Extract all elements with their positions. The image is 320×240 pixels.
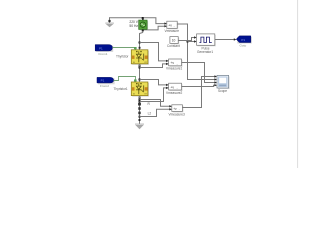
svg-text:Vmeasure3: Vmeasure3 <box>169 112 186 116</box>
arrow into Vmeasure plus <box>164 22 167 24</box>
svg-text:L2: L2 <box>148 111 152 115</box>
wire tap to Vmeasure1 minus <box>140 64 167 68</box>
wire tap to Vmeasure1 plus <box>140 43 167 61</box>
arrow into Vmeasure1 minus <box>166 63 169 65</box>
wire From2 to gate g2 (green) <box>114 77 136 83</box>
svg-text:Thyristor1: Thyristor1 <box>114 87 128 91</box>
arrow into Goto <box>234 38 237 40</box>
svg-text:P1: P1 <box>101 79 105 83</box>
arrow into Vmeasure2 minus <box>166 87 169 89</box>
From tag From2 <box>97 77 115 84</box>
wire branch into pulse generator in2 <box>188 41 195 43</box>
gate port g2 <box>134 79 137 81</box>
svg-text:10: 10 <box>172 39 176 43</box>
wire tap to Vmeasure3 plus <box>140 100 171 107</box>
arrow into scope in1 <box>214 75 217 77</box>
series RLC branch RL inductor element 2 <box>138 112 140 115</box>
wire Vmeasure3 out to scope in1 <box>182 77 215 108</box>
svg-text:Vmeasure2: Vmeasure2 <box>166 91 183 95</box>
svg-text:+v: +v <box>168 24 172 28</box>
voltage measurement Vmeasure1 block <box>169 59 183 67</box>
svg-text:+v: +v <box>170 85 174 89</box>
scope block <box>217 75 230 89</box>
label 220V 50Hz <box>129 20 138 28</box>
thyristor Thyristor1 <box>131 82 149 97</box>
node B junction dot <box>142 29 144 31</box>
voltage measurement U_src block <box>167 21 178 29</box>
svg-text:-: - <box>179 107 180 111</box>
svg-text:+v: +v <box>173 107 177 111</box>
Goto tag <box>236 36 252 44</box>
window border right edge <box>296 0 299 168</box>
arrow into scope in3 <box>214 81 217 83</box>
junction dot tap Vmeasure2 minus <box>139 101 141 103</box>
arrow into Vmeasure minus <box>164 25 167 27</box>
voltage measurement Vmeasure2 block <box>169 83 183 91</box>
junction dot above thyristor2 <box>139 79 141 81</box>
wire tap to Vmeasure2 plus <box>140 80 167 85</box>
series RLC branch RL resistor element <box>138 103 141 106</box>
arrow into Vmeasure3 minus <box>169 108 172 110</box>
arrow into Vmeasure1 plus <box>166 60 169 62</box>
port dot thyristor2 cathode <box>139 97 141 99</box>
ground G2 <box>135 124 144 129</box>
svg-text:From1: From1 <box>99 52 108 56</box>
junction dot node load top <box>139 99 141 101</box>
gate port g1 <box>134 47 137 49</box>
wire tap to Vmeasure3 minus <box>140 109 171 116</box>
AC voltage source V1 <box>139 18 148 31</box>
svg-text:-: - <box>177 86 178 90</box>
series RLC branch RL inductor element 1 <box>138 107 140 110</box>
From tag From1 <box>95 45 113 52</box>
svg-text:m: m <box>145 61 147 64</box>
wire Vmeasure1 out to scope in3 <box>182 63 216 83</box>
arrow into scope in2 <box>214 78 217 80</box>
ground G1 <box>105 20 114 27</box>
svg-text:P1: P1 <box>99 46 103 50</box>
wire Vmeasure2 out to scope in4 <box>182 85 216 86</box>
svg-text:P1: P1 <box>241 38 245 42</box>
wire node B to Vmeasure minus <box>143 26 166 30</box>
node T junction dot <box>142 17 144 19</box>
pulse generator block <box>197 34 216 46</box>
port dot thyristor1 cathode <box>139 65 141 67</box>
svg-text:50 Hz: 50 Hz <box>129 24 138 28</box>
junction dot pulse branch <box>187 41 189 43</box>
svg-text:Thyristor: Thyristor <box>116 55 129 59</box>
wire From1 to gate g1 (green) <box>112 48 135 51</box>
arrow into scope in4 <box>214 84 217 86</box>
svg-text:Scope: Scope <box>218 89 227 93</box>
thyristor Thyristor <box>131 50 149 65</box>
wire column thyristor1 to thyristor2 <box>139 64 141 83</box>
svg-text:+v: +v <box>170 61 174 65</box>
wire column thyristor2 to ground2 <box>139 96 141 125</box>
wire main column source to thyristor1 <box>140 30 143 51</box>
voltage measurement Vmeasure3 block <box>172 105 184 113</box>
svg-text:Goto: Goto <box>240 44 247 48</box>
svg-text:Constant: Constant <box>167 44 180 48</box>
wire ground1 stem <box>109 17 111 23</box>
wire tap to Vmeasure2 minus <box>140 88 167 102</box>
label Pulse Generator1 <box>197 46 213 54</box>
series RLC branch RL junction dot lower2 <box>139 119 141 121</box>
junction dot above thyristor1 <box>139 42 141 44</box>
svg-text:Generator1: Generator1 <box>197 50 213 54</box>
series RLC branch RL junction dot lower1 <box>139 116 141 118</box>
svg-text:From2: From2 <box>100 84 109 88</box>
arrow into pulse generator in2 <box>194 40 197 42</box>
wire ground1 to node T <box>110 18 166 24</box>
junction dot below thyristor1 <box>139 67 141 69</box>
svg-text:Vmeasure: Vmeasure <box>165 29 180 33</box>
port dot thyristor1 anode <box>139 47 141 49</box>
arrow into pulse generator in1 <box>194 36 197 38</box>
arrow into Vmeasure2 plus <box>166 84 169 86</box>
svg-text:m: m <box>145 92 147 95</box>
svg-text:-: - <box>177 62 178 66</box>
wire pulse generator out to Goto <box>215 39 235 41</box>
svg-text:-: - <box>174 24 175 28</box>
arrow into Vmeasure3 plus <box>169 105 172 107</box>
wire Vmeasure out to pulse generator and scope in2 <box>177 24 215 80</box>
wire constant out to pulse generator in1 <box>178 38 195 41</box>
svg-text:Vmeasure1: Vmeasure1 <box>166 67 183 71</box>
constant block Constant <box>170 37 179 45</box>
